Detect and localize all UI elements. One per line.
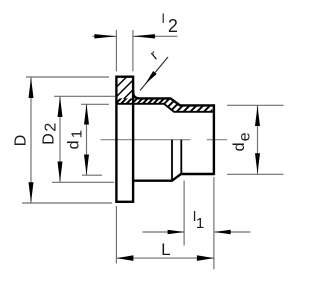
- svg-text:D: D: [13, 135, 30, 147]
- svg-text:L: L: [161, 240, 170, 259]
- svg-text:2: 2: [168, 16, 178, 36]
- svg-text:D: D: [41, 133, 58, 145]
- svg-text:d: d: [231, 142, 248, 151]
- svg-text:d: d: [65, 140, 82, 149]
- svg-text:1: 1: [196, 215, 204, 232]
- svg-text:2: 2: [43, 123, 60, 132]
- svg-text:1: 1: [68, 130, 85, 138]
- svg-text:l: l: [162, 11, 165, 26]
- svg-text:e: e: [237, 132, 254, 141]
